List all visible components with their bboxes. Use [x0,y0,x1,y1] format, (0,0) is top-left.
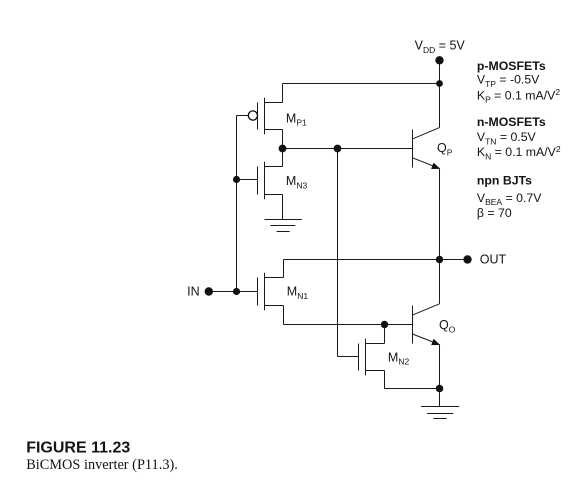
svg-text:MN3: MN3 [286,174,308,190]
junction: OUT node [436,256,443,263]
svg-text:VTP = -0.5V: VTP = -0.5V [477,73,540,89]
terminal OUT dot [463,255,471,263]
arrow QO emitter [431,339,440,345]
wire top rail [283,83,440,85]
wire MN3 drain riser [282,149,284,167]
svg-text:n-MOSFETs: n-MOSFETs [477,115,546,129]
transistor MN1 (NMOS) [258,273,284,310]
supply terminal VDD dot [435,56,443,64]
node B junction (MN2 drain) [381,321,388,328]
svg-text:MP1: MP1 [286,111,307,127]
svg-text:VDD = 5V: VDD = 5V [415,39,466,55]
wire QP emitter lead [439,168,441,259]
arrow QP emitter [431,163,440,169]
wire MN3 gate lead [237,179,258,181]
wire VDD stub [439,60,441,83]
svg-text:KP = 0.1 mA/V2: KP = 0.1 mA/V2 [477,87,560,104]
wire left gate bus [236,116,238,292]
svg-text:IN: IN [187,285,200,299]
svg-text:npn BJTs: npn BJTs [477,173,532,187]
wire QO emitter lead [439,345,441,407]
wire OUT row [284,259,468,261]
wire MN3 source drop [282,195,284,220]
svg-text:OUT: OUT [480,253,507,267]
ground (MN3 source) [265,220,302,232]
wire MN1 source drop [283,306,285,325]
wire QO collector lead [439,260,441,304]
junction: QO emitter / MN2 source / ground [436,385,444,393]
svg-text:VBEA = 0.7V: VBEA = 0.7V [477,191,542,207]
transistor QP (npn BJT) [413,128,440,169]
wire MN2 gate lead [338,356,359,358]
junction: MN3 gate on left bus [233,176,240,183]
wire node row A [283,148,413,150]
node A junction (MP1 source / MN3 drain) [279,145,287,153]
svg-text:KN = 0.1 mA/V2: KN = 0.1 mA/V2 [477,144,561,161]
wire MN2 source drop [384,371,386,389]
wire bottom row [385,388,440,390]
transistor QO (npn BJT) [413,304,440,345]
svg-text:QO: QO [439,318,456,334]
junction: IN on left bus [233,288,240,295]
wire MN2 drain riser [384,325,386,344]
wire QP collector lead [439,84,441,128]
transistor MN3 (NMOS) [258,162,283,199]
wire node row B [284,324,413,326]
node A junction (mid bus tap) [334,145,342,153]
svg-text:MN2: MN2 [388,350,410,366]
svg-text:QP: QP [437,141,453,157]
transistor MN2 (NMOS) [359,339,385,375]
transistor MP1 (PMOS) [248,98,282,134]
ground (QO emitter) [421,407,459,419]
wire MP1 gate lead [237,115,249,117]
svg-text:VTN = 0.5V: VTN = 0.5V [477,130,537,146]
wire MP1 source drop [282,130,284,149]
terminal IN dot [205,287,213,295]
svg-text:β = 70: β = 70 [477,206,512,220]
wire mid vertical bus [337,149,339,357]
wire MN1 drain riser [283,260,285,278]
svg-text:BiCMOS inverter (P11.3).: BiCMOS inverter (P11.3). [26,457,178,473]
wire MP1 drain riser [282,84,284,103]
wire IN lead [209,291,258,293]
svg-text:p-MOSFETs: p-MOSFETs [477,59,546,73]
svg-text:FIGURE 11.23: FIGURE 11.23 [26,440,130,457]
svg-text:MN1: MN1 [287,285,309,301]
junction: rail to collector [436,80,443,87]
